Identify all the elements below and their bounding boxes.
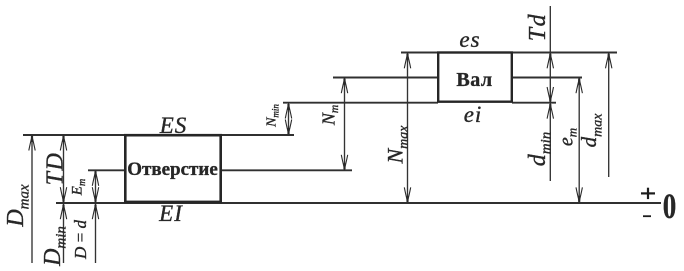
label plus <box>641 192 655 194</box>
svg-text:Td: Td <box>525 13 551 41</box>
zero line <box>56 202 661 204</box>
wire ES line left extension <box>23 134 125 136</box>
dimension line E_m / D=d <box>95 170 97 263</box>
svg-text:ei: ei <box>464 102 483 127</box>
label minus <box>643 215 651 217</box>
wire ei line left extension <box>283 102 438 104</box>
svg-text:0: 0 <box>663 186 676 226</box>
wire es line right extension <box>512 52 617 54</box>
dimension line D_max <box>31 135 33 263</box>
wire E-mid line right extension <box>221 169 352 171</box>
svg-text:TD: TD <box>43 152 69 186</box>
dimension line N_max <box>407 53 409 203</box>
wire E-mid line left extension <box>88 169 125 171</box>
svg-text:D = d: D = d <box>71 219 90 260</box>
wire e-mid line left extension <box>333 77 438 79</box>
dimension line d_max <box>608 53 610 177</box>
svg-text:EI: EI <box>158 201 183 226</box>
dimension line N_m <box>344 78 346 170</box>
wire e-mid line right extension <box>512 77 582 79</box>
svg-text:es: es <box>459 27 480 52</box>
dimension line e_m <box>578 78 580 203</box>
wire es line left extension <box>401 52 438 54</box>
hole box Отверстие <box>125 135 220 202</box>
svg-text:Вал: Вал <box>456 69 492 91</box>
svg-text:ES: ES <box>159 113 188 138</box>
dimension line Td / d_min <box>549 6 551 181</box>
svg-text:Отверстие: Отверстие <box>127 159 218 180</box>
shaft box Вал <box>438 53 512 102</box>
dimension line TD / D_min <box>63 135 65 263</box>
dimension line N_min <box>288 103 290 135</box>
wire ei line right extension <box>512 102 556 104</box>
wire ES line right extension <box>221 134 294 136</box>
